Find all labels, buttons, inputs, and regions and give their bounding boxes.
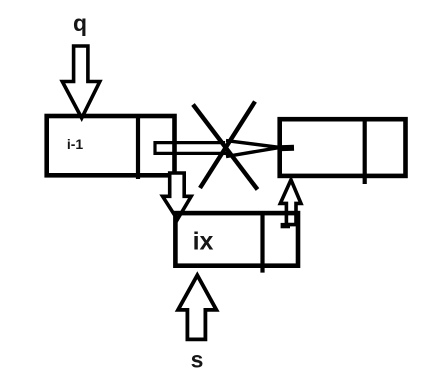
arrow from ix up to right node (hollow up arrow) — [280, 180, 301, 226]
divider of right node box — [363, 119, 367, 184]
label ix — [193, 228, 214, 256]
svg-text:ix: ix — [193, 228, 214, 256]
right node box — [280, 119, 406, 176]
divider of node i-1 — [136, 116, 140, 179]
svg-text:q: q — [73, 10, 87, 36]
pointer shaft (old link rectangle) — [155, 143, 229, 154]
svg-text:s: s — [191, 347, 204, 373]
node box ix — [175, 213, 298, 266]
svg-text:i-1: i-1 — [67, 136, 84, 152]
node box i-1 — [47, 116, 175, 175]
divider of node ix — [260, 213, 264, 273]
label i-1 — [67, 136, 84, 152]
arrow q (hollow down arrow into node i-1) — [62, 46, 100, 118]
pointer arrowhead (narrow triangle to right box) — [226, 141, 294, 157]
arrow from i-1 down to ix (hollow down arrow) — [163, 173, 192, 220]
arrow s (hollow up arrow into node ix) — [178, 275, 216, 339]
X cross stroke 1 — [193, 105, 258, 190]
label s — [191, 347, 204, 373]
label q — [73, 10, 87, 36]
X cross stroke 2 — [200, 102, 255, 189]
